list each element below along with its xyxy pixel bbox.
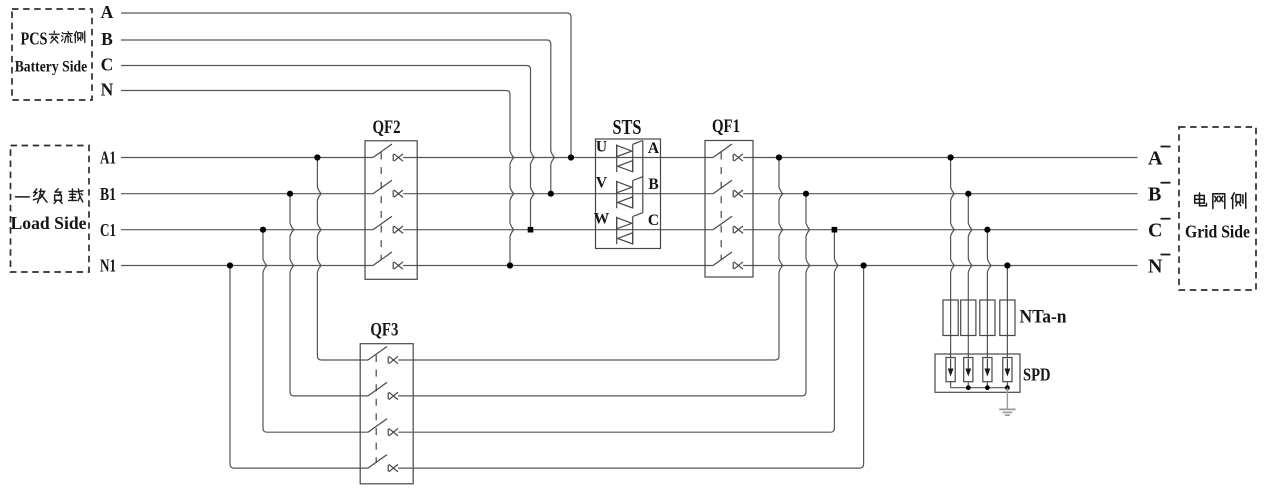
svg-text:SPD: SPD [1023, 365, 1051, 385]
wire C from PCS side, turns down at x=530.5 [121, 66, 534, 230]
breaker QF2 pole 1 [373, 144, 403, 161]
STS pin label U [596, 139, 607, 156]
QF2 mechanical linkage (dashed) [380, 153, 382, 261]
junction dot N1 tap [227, 262, 233, 268]
label 电网侧 (grid side, CJK) [1195, 193, 1246, 209]
breaker QF2 pole 4 [373, 252, 403, 269]
svg-text:QF3: QF3 [370, 320, 398, 341]
breaker QF1 pole 1 [713, 144, 743, 161]
junction dot SPD bus C [985, 385, 990, 390]
junction dot grid column A [948, 154, 954, 160]
wire SPD element A bottom stub [950, 382, 952, 388]
STS pin label A [648, 140, 660, 157]
wire B from PCS side, turns down at x=550.8 [121, 40, 555, 194]
junction dot SPD bus N [1005, 385, 1010, 390]
junction square dot C row after QF1 [832, 227, 838, 233]
label QF1 [712, 116, 740, 137]
breaker QF3 pole 4 [368, 455, 398, 472]
breaker QF1 pole 2 [713, 180, 743, 197]
junction dot grid column B [965, 191, 971, 197]
svg-text:W: W [594, 211, 610, 228]
svg-text:C: C [648, 212, 659, 229]
junction dot B1 row after QF1 [803, 191, 809, 197]
fuse NT phase C [980, 300, 995, 336]
node label N-bar (grid side) [1148, 255, 1171, 278]
node label C (PCS side) [101, 54, 114, 74]
junction dot C1 tap [260, 227, 266, 233]
dashed box: PCS AC side / Battery Side [12, 9, 92, 100]
dashed box: primary load / Load Side [11, 146, 90, 273]
breaker QF2 box [365, 141, 417, 279]
svg-text:B1: B1 [100, 184, 116, 204]
svg-text:NTa-n: NTa-n [1020, 307, 1067, 328]
label Battery Side [15, 59, 88, 76]
wire C1 main bus row [121, 229, 1138, 231]
junction dot B1 tap [287, 191, 293, 197]
svg-text:N1: N1 [100, 256, 116, 276]
svg-text:A1: A1 [100, 148, 116, 168]
SPD element phase C [983, 358, 992, 382]
dashed box: grid side [1179, 127, 1256, 290]
QF3 mechanical linkage (dashed) [375, 355, 377, 463]
wire SPD element N bottom stub [1006, 382, 1008, 388]
label PCS (latin part) [21, 28, 48, 48]
breaker QF2 pole 3 [373, 216, 403, 233]
fuse NT phase B [961, 300, 976, 336]
svg-text:C: C [101, 54, 114, 74]
junction dot A from PCS joins row A1 [568, 154, 574, 160]
wire B1 main bus row [121, 193, 1138, 195]
fuse NT phase A [943, 300, 958, 336]
wire N1 main bus row [121, 265, 1138, 267]
svg-text:Battery Side: Battery Side [15, 59, 88, 76]
junction square dot C from PCS joins row C1 [528, 227, 534, 233]
wire N from PCS side, turns down at x=510.0 [121, 91, 514, 266]
junction dot N1 row after QF1 [861, 262, 867, 268]
node label B1 (load side) [100, 184, 116, 204]
svg-text:B: B [648, 176, 658, 193]
node label B-bar (grid side) [1148, 183, 1171, 206]
node label A1 (load side) [100, 148, 116, 168]
svg-text:STS: STS [613, 115, 642, 139]
svg-text:B: B [1148, 184, 1161, 206]
wire QF3 pole 3 output up to bus C1 after QF1 [398, 230, 838, 433]
fuse NT phase N [1000, 300, 1015, 336]
svg-text:V: V [596, 175, 608, 192]
STS thyristor pair phase U-A [617, 141, 643, 173]
node label N (PCS side) [101, 80, 114, 100]
wire to ground (grey) [1006, 388, 1008, 409]
ground symbol [999, 409, 1015, 415]
node label A (PCS side) [101, 2, 114, 22]
wire grid-side column C down to fuse/SPD [987, 230, 991, 358]
svg-text:Grid Side: Grid Side [1185, 222, 1250, 242]
STS pin label W [594, 211, 610, 228]
junction dot B from PCS joins row B1 [548, 191, 554, 197]
svg-text:QF1: QF1 [712, 116, 740, 137]
label QF2 [373, 117, 401, 138]
wire A from PCS side, turns down at x=571.0 [121, 13, 571, 158]
label 交流侧 (PCS AC side, CJK) [49, 31, 85, 43]
STS static transfer switch box [596, 139, 661, 249]
svg-text:C: C [1148, 220, 1162, 242]
STS gate bus vertical [642, 141, 644, 213]
wire SPD element C bottom stub [986, 382, 988, 388]
node label C-bar (grid side) [1148, 219, 1171, 242]
svg-text:A: A [101, 2, 114, 22]
svg-text:Load Side: Load Side [11, 213, 87, 233]
wire tap A1 down to QF3 pole 1 input [317, 158, 368, 361]
wire grid-side column B down to fuse/SPD [968, 194, 972, 358]
wire tap C1 down to QF3 pole 3 input [263, 230, 368, 433]
svg-text:N: N [101, 80, 114, 100]
label Grid Side [1185, 222, 1250, 242]
breaker QF3 pole 3 [368, 419, 398, 436]
SPD element phase N [1003, 358, 1012, 382]
label QF3 [370, 320, 398, 341]
svg-text:N: N [1148, 256, 1163, 278]
svg-text:C1: C1 [100, 220, 116, 240]
breaker QF3 pole 2 [368, 382, 398, 399]
STS thyristor pair phase W-C [617, 213, 643, 245]
node label B (PCS side) [101, 29, 113, 49]
breaker QF3 box [360, 344, 413, 484]
svg-text:QF2: QF2 [373, 117, 401, 138]
SPD element phase B [964, 358, 973, 382]
breaker QF1 pole 4 [713, 252, 743, 269]
wire QF3 pole 2 output up to bus B1 after QF1 [398, 194, 810, 396]
node label N1 (load side) [100, 256, 116, 276]
STS pin label V [596, 175, 608, 192]
wire QF3 pole 1 output up to bus A1 after QF1 [398, 158, 783, 361]
wire SPD element B bottom stub [967, 382, 969, 388]
junction dot grid column N [1004, 262, 1010, 268]
STS pin label C [648, 212, 659, 229]
breaker QF1 pole 3 [713, 216, 743, 233]
SPD box [935, 354, 1020, 392]
wire grid-side column A down to fuse/SPD [951, 158, 955, 358]
node label A-bar (grid side) [1148, 147, 1171, 170]
wire SPD earth bus [951, 387, 1008, 389]
label STS [613, 115, 642, 139]
junction dot grid column C [984, 227, 990, 233]
breaker QF3 pole 1 [368, 347, 398, 364]
STS thyristor pair phase V-B [617, 177, 643, 209]
node label C1 (load side) [100, 220, 116, 240]
svg-text:B: B [101, 29, 113, 49]
wire grid-side column N down to fuse/SPD [1006, 266, 1008, 358]
label Load Side [11, 213, 87, 233]
SPD element phase A [946, 358, 955, 382]
svg-text:U: U [596, 139, 607, 156]
wire A1 main bus row [121, 157, 1138, 159]
label NTa-n [1020, 307, 1067, 328]
junction dot A1 tap [314, 154, 320, 160]
breaker QF1 box [705, 141, 753, 278]
svg-text:A: A [1148, 148, 1163, 170]
QF1 mechanical linkage (dashed) [720, 153, 722, 261]
label 一级负载 (primary load, CJK) [15, 189, 82, 204]
label SPD [1023, 365, 1051, 385]
junction dot A1 row after QF1 [776, 154, 782, 160]
svg-text:A: A [648, 140, 660, 157]
wire QF3 pole 4 output up to bus N1 after QF1 [398, 266, 863, 469]
svg-text:PCS: PCS [21, 28, 48, 48]
STS pin label B [648, 176, 658, 193]
junction dot N from PCS joins row N1 [507, 262, 513, 268]
wire tap N1 down to QF3 pole 4 input [230, 266, 368, 469]
junction dot SPD bus B [966, 385, 971, 390]
breaker QF2 pole 2 [373, 180, 403, 197]
wire tap B1 down to QF3 pole 2 input [290, 194, 368, 396]
